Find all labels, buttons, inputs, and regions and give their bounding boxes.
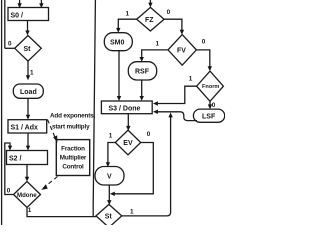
svg-text:Multiplier: Multiplier xyxy=(60,155,87,162)
svg-text:S3 / Done: S3 / Done xyxy=(109,105,141,112)
state box S1 xyxy=(8,120,47,133)
decision Mdone xyxy=(14,182,41,208)
svg-text:FV: FV xyxy=(177,48,186,55)
wire LSF back to S3 right edge xyxy=(157,112,197,121)
wire S1 to S2 xyxy=(27,133,29,147)
svg-text:0: 0 xyxy=(212,102,216,109)
svg-text:Fnorm: Fnorm xyxy=(202,84,219,90)
wire Mdone1 to bottom St xyxy=(27,208,96,217)
svg-text:Mdone: Mdone xyxy=(17,192,37,199)
svg-text:SM0: SM0 xyxy=(110,39,125,46)
svg-text:S0 /: S0 / xyxy=(11,12,24,19)
state box S2 xyxy=(7,151,48,165)
svg-text:0: 0 xyxy=(147,131,151,138)
svg-text:1: 1 xyxy=(130,208,134,215)
svg-text:FZ: FZ xyxy=(145,17,154,24)
wire SM0 to S3 xyxy=(118,51,120,97)
wire dashed S1 to Fraction Multiplier Control xyxy=(48,120,56,139)
state box S0 xyxy=(8,8,49,21)
wire FV1 to RSF xyxy=(142,50,168,58)
state oval RSF xyxy=(128,62,156,80)
svg-text:S1 / Adx: S1 / Adx xyxy=(11,124,38,131)
svg-text:1: 1 xyxy=(28,207,32,214)
decision EV xyxy=(115,130,140,155)
wire EV0 feedback to St xyxy=(114,143,153,194)
dashed arrowhead into FMC xyxy=(53,135,57,142)
svg-text:0: 0 xyxy=(202,38,206,45)
wire Fnorm1 to S3 right edge xyxy=(157,86,197,103)
svg-text:LSF: LSF xyxy=(202,113,216,120)
svg-text:1: 1 xyxy=(30,69,34,76)
wire EV1 to V xyxy=(108,143,115,164)
wire Load to S1 xyxy=(27,98,29,115)
svg-text:Load: Load xyxy=(20,89,37,96)
wire FZ entry arrow xyxy=(149,0,151,4)
svg-text:1: 1 xyxy=(189,76,193,83)
wire FZ1 to SM0 xyxy=(118,19,136,29)
svg-text:Add exponents,: Add exponents, xyxy=(50,113,96,120)
svg-text:St: St xyxy=(105,214,113,221)
arrowheads xyxy=(17,3,21,8)
svg-text:St: St xyxy=(24,46,32,53)
wire FV0 to Fnorm xyxy=(196,50,209,68)
svg-text:0: 0 xyxy=(167,9,171,16)
svg-text:1: 1 xyxy=(126,11,130,18)
svg-text:Fraction: Fraction xyxy=(61,146,85,153)
state oval Load xyxy=(13,84,43,98)
wire S0 to St xyxy=(27,21,29,32)
svg-text:start multiply: start multiply xyxy=(52,124,90,131)
state box S3 xyxy=(101,101,152,114)
svg-text:Control: Control xyxy=(62,164,84,171)
svg-text:1: 1 xyxy=(109,132,113,139)
svg-text:S2 /: S2 / xyxy=(9,155,22,162)
decision Fnorm xyxy=(197,71,224,101)
decision FZ xyxy=(137,7,164,31)
state oval LSF xyxy=(193,109,224,122)
state oval SM0 xyxy=(104,33,132,51)
dashed arrowhead into Mdone xyxy=(41,184,47,190)
wire long tilted divider line xyxy=(93,0,95,217)
control box Fraction Multiplier Control xyxy=(56,140,89,176)
svg-text:EV: EV xyxy=(123,140,133,147)
wire St1 to Load xyxy=(27,61,29,76)
svg-text:RSF: RSF xyxy=(135,69,150,76)
decision FV xyxy=(168,35,196,66)
wire S2 to Mdone xyxy=(26,165,28,178)
wire St0 horizontal into left corner of St xyxy=(5,47,15,49)
svg-text:0: 0 xyxy=(7,187,11,194)
wire entry arrow 2 into S0 xyxy=(40,0,42,4)
wire S3 to EV xyxy=(127,114,129,127)
wire V to bottom St xyxy=(108,185,110,201)
wire dashed Fraction Multiplier Control to Mdone xyxy=(45,177,58,188)
decision St (top) xyxy=(15,36,42,62)
wire St0 feedback vertical xyxy=(4,0,6,48)
state oval V xyxy=(95,167,124,186)
svg-text:V: V xyxy=(107,174,112,181)
decision St (bottom) xyxy=(96,204,122,227)
wire RSF to S3 xyxy=(141,80,143,97)
wire left border vertical xyxy=(1,0,3,225)
wire Fnorm0 to LSF xyxy=(209,101,211,105)
wire St1 bottom feedback up to S3 line xyxy=(122,117,171,216)
svg-text:1: 1 xyxy=(156,40,160,47)
wire Mdone0 loop to S2 xyxy=(5,143,14,195)
wire entry arrow 1 into S0 xyxy=(19,0,21,4)
svg-text:0: 0 xyxy=(8,40,12,47)
wire FZ0 to FV xyxy=(164,19,182,31)
